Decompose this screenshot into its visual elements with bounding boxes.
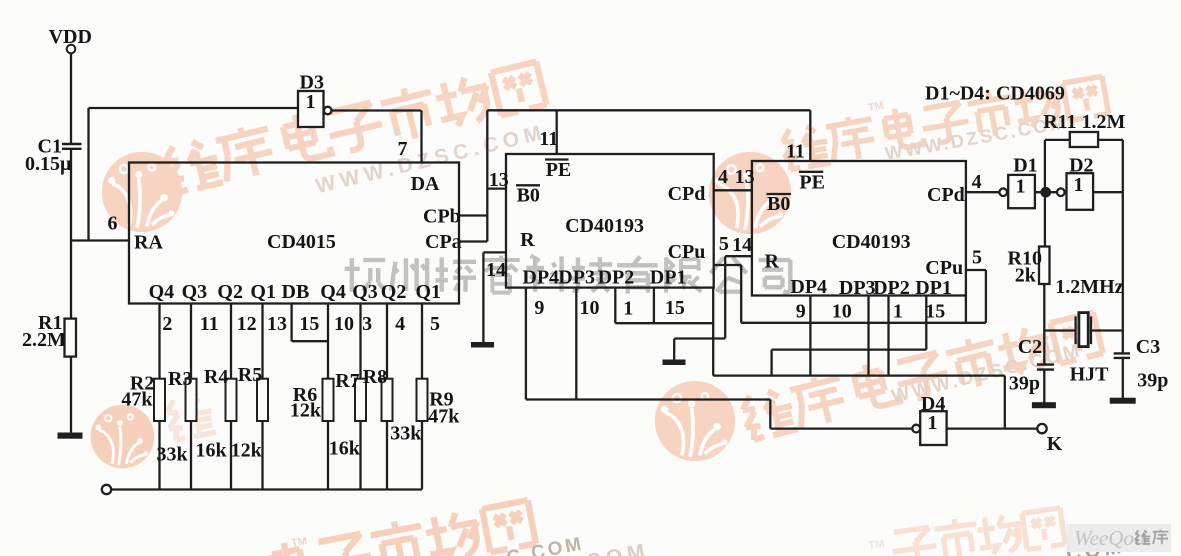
svg-text:1: 1	[623, 298, 633, 320]
svg-text:DP1: DP1	[915, 277, 952, 299]
svg-text:R7: R7	[335, 370, 359, 392]
svg-text:13: 13	[267, 313, 287, 335]
svg-text:PE: PE	[546, 159, 572, 181]
svg-text:CPd: CPd	[927, 184, 965, 206]
svg-text:C2: C2	[1018, 336, 1042, 358]
svg-text:CD40193: CD40193	[565, 215, 644, 237]
svg-text:R8: R8	[363, 366, 387, 388]
svg-text:B0: B0	[767, 193, 790, 215]
svg-text:Q1: Q1	[416, 281, 442, 303]
svg-text:12k: 12k	[290, 399, 322, 421]
svg-text:1: 1	[893, 301, 903, 323]
svg-text:Q2: Q2	[217, 281, 243, 303]
svg-text:13: 13	[489, 169, 509, 191]
svg-text:14: 14	[486, 259, 506, 281]
svg-text:1: 1	[928, 412, 938, 434]
svg-text:VDD: VDD	[49, 26, 92, 48]
svg-text:13: 13	[735, 166, 755, 188]
svg-text:2: 2	[162, 313, 172, 335]
svg-text:R11 1.2M: R11 1.2M	[1043, 111, 1125, 133]
svg-text:CD40193: CD40193	[832, 231, 911, 253]
svg-text:RA: RA	[134, 231, 163, 253]
svg-text:15: 15	[299, 313, 319, 335]
svg-text:6: 6	[108, 212, 118, 234]
svg-text:DA: DA	[411, 173, 440, 195]
svg-text:11: 11	[200, 313, 219, 335]
svg-text:R5: R5	[238, 364, 262, 386]
svg-text:1.2MHz: 1.2MHz	[1055, 276, 1123, 298]
svg-text:C3: C3	[1136, 336, 1160, 358]
svg-text:1: 1	[306, 91, 316, 113]
svg-text:4: 4	[718, 166, 728, 188]
svg-text:7: 7	[398, 138, 408, 160]
svg-text:R3: R3	[168, 368, 192, 390]
svg-text:HJT: HJT	[1070, 364, 1110, 386]
svg-text:3: 3	[362, 313, 372, 335]
svg-text:B0: B0	[517, 185, 540, 207]
svg-text:33k: 33k	[390, 423, 422, 445]
svg-text:K: K	[1047, 433, 1063, 455]
svg-text:16k: 16k	[329, 438, 361, 460]
svg-text:DP3: DP3	[558, 267, 595, 289]
svg-text:11: 11	[786, 140, 805, 162]
svg-text:15: 15	[925, 301, 945, 323]
svg-text:10: 10	[334, 313, 354, 335]
svg-text:1: 1	[1016, 176, 1026, 198]
svg-text:14: 14	[732, 234, 752, 256]
svg-text:10: 10	[832, 301, 852, 323]
svg-text:12k: 12k	[231, 440, 263, 462]
svg-text:DP2: DP2	[598, 267, 635, 289]
svg-text:Q3: Q3	[352, 281, 378, 303]
svg-text:PE: PE	[799, 171, 825, 193]
svg-text:2.2M: 2.2M	[22, 329, 66, 351]
svg-text:CPd: CPd	[668, 183, 706, 205]
svg-text:1: 1	[1074, 174, 1084, 196]
svg-text:33k: 33k	[157, 444, 189, 466]
svg-text:Q4: Q4	[149, 281, 175, 303]
svg-text:R4: R4	[204, 366, 228, 388]
svg-text:5: 5	[719, 233, 729, 255]
svg-text:Q4: Q4	[320, 281, 346, 303]
svg-text:DP1: DP1	[650, 267, 687, 289]
svg-text:5: 5	[972, 247, 982, 269]
svg-text:39p: 39p	[1137, 370, 1168, 392]
svg-text:47k: 47k	[121, 389, 153, 411]
svg-text:12: 12	[237, 313, 257, 335]
svg-text:DP4: DP4	[522, 267, 559, 289]
svg-text:DP3: DP3	[839, 277, 876, 299]
svg-text:9: 9	[534, 297, 544, 319]
svg-text:DB: DB	[282, 281, 310, 303]
svg-text:Q1: Q1	[250, 281, 276, 303]
svg-text:4: 4	[395, 313, 405, 335]
svg-text:9: 9	[796, 301, 806, 323]
svg-text:CD4015: CD4015	[267, 231, 336, 253]
svg-text:DP2: DP2	[873, 277, 910, 299]
svg-text:R: R	[765, 251, 780, 273]
svg-text:DP4: DP4	[790, 276, 827, 298]
svg-text:Q2: Q2	[381, 281, 407, 303]
svg-text:4: 4	[972, 171, 982, 193]
svg-text:39p: 39p	[1009, 373, 1040, 395]
svg-text:5: 5	[430, 313, 440, 335]
svg-text:R: R	[520, 229, 535, 251]
svg-text:15: 15	[665, 297, 685, 319]
svg-text:CPu: CPu	[925, 257, 963, 279]
svg-text:CPu: CPu	[668, 241, 706, 263]
svg-text:D1~D4: CD4069: D1~D4: CD4069	[925, 83, 1065, 105]
svg-text:0.15μ: 0.15μ	[25, 153, 72, 175]
svg-text:Q3: Q3	[182, 281, 208, 303]
svg-text:10: 10	[580, 297, 600, 319]
svg-text:CPb: CPb	[423, 205, 461, 227]
svg-text:11: 11	[539, 128, 558, 150]
svg-text:47k: 47k	[428, 406, 460, 428]
svg-text:D1: D1	[1013, 155, 1037, 177]
svg-text:CPa: CPa	[425, 231, 462, 253]
svg-text:16k: 16k	[196, 440, 228, 462]
svg-text:2k: 2k	[1015, 265, 1037, 287]
